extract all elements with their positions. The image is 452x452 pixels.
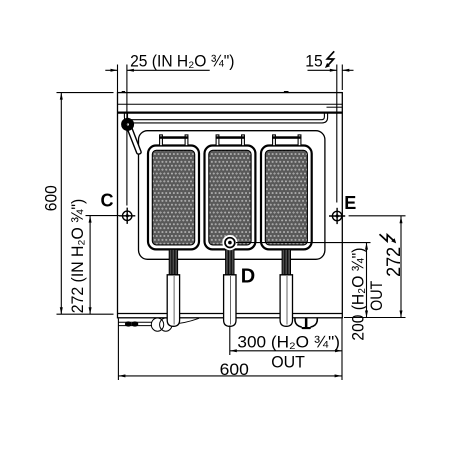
svg-text:15: 15	[305, 52, 323, 70]
svg-text:272 (IN H₂O ¾"): 272 (IN H₂O ¾")	[69, 199, 87, 314]
svg-text:OUT: OUT	[271, 354, 305, 372]
svg-text:600: 600	[42, 185, 60, 211]
svg-text:OUT: OUT	[367, 281, 386, 311]
svg-text:E: E	[344, 193, 356, 213]
svg-text:600: 600	[220, 361, 249, 379]
svg-text:300 (H₂O ¾"): 300 (H₂O ¾")	[237, 333, 340, 351]
svg-text:C: C	[101, 191, 114, 211]
svg-text:200 (H₂O ¾"): 200 (H₂O ¾")	[348, 248, 367, 341]
svg-text:272: 272	[383, 247, 405, 277]
svg-text:D: D	[241, 266, 255, 288]
svg-text:25 (IN H₂O ¾"): 25 (IN H₂O ¾")	[130, 52, 234, 70]
